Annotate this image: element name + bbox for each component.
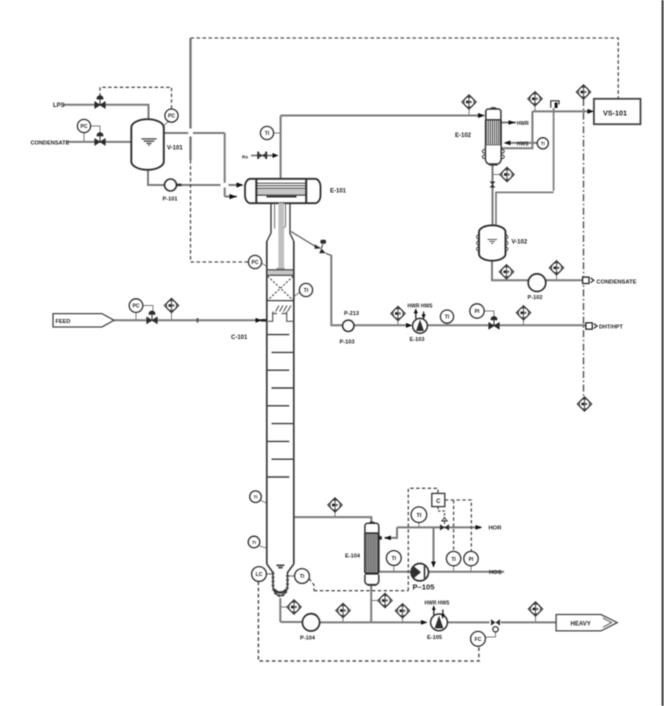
svg-text:E-103: E-103 bbox=[410, 337, 425, 343]
svg-text:Ro: Ro bbox=[242, 155, 248, 160]
svg-text:TI: TI bbox=[416, 513, 421, 519]
svg-text:E-102: E-102 bbox=[455, 133, 472, 139]
svg-text:P-102: P-102 bbox=[528, 295, 543, 301]
svg-text:V-101: V-101 bbox=[167, 146, 183, 152]
svg-text:LPS: LPS bbox=[53, 103, 65, 109]
svg-text:TI: TI bbox=[252, 540, 256, 545]
svg-text:PC: PC bbox=[252, 260, 259, 266]
svg-text:E-104: E-104 bbox=[345, 554, 361, 560]
svg-text:PC: PC bbox=[168, 114, 175, 120]
svg-text:PC: PC bbox=[81, 124, 88, 130]
svg-text:C: C bbox=[436, 499, 441, 505]
svg-text:TI: TI bbox=[265, 131, 270, 137]
svg-text:HOS: HOS bbox=[489, 570, 502, 576]
svg-text:HOR: HOR bbox=[489, 526, 503, 532]
svg-text:CONDENSATE: CONDENSATE bbox=[31, 140, 70, 146]
svg-text:P–105: P–105 bbox=[413, 583, 436, 592]
svg-text:P-101: P-101 bbox=[163, 197, 178, 203]
svg-text:E-105: E-105 bbox=[427, 635, 442, 641]
svg-text:HEAVY: HEAVY bbox=[571, 621, 591, 627]
svg-text:P-213: P-213 bbox=[344, 311, 359, 317]
svg-text:TI: TI bbox=[445, 315, 450, 321]
svg-text:TI: TI bbox=[541, 141, 545, 146]
svg-text:PI: PI bbox=[469, 557, 474, 563]
svg-text:HWR: HWR bbox=[517, 121, 529, 127]
svg-text:TI: TI bbox=[304, 288, 309, 294]
svg-text:PI: PI bbox=[475, 309, 480, 315]
svg-text:TI: TI bbox=[451, 557, 456, 563]
svg-text:FC: FC bbox=[475, 637, 482, 643]
svg-text:LC: LC bbox=[256, 572, 263, 578]
svg-text:HWR HWS: HWR HWS bbox=[408, 303, 434, 309]
svg-text:CONDENSATE: CONDENSATE bbox=[596, 280, 636, 286]
svg-text:HWS: HWS bbox=[517, 142, 529, 148]
svg-text:HWR HWS: HWR HWS bbox=[425, 601, 451, 607]
svg-text:E-101: E-101 bbox=[330, 189, 347, 195]
svg-text:FEED: FEED bbox=[56, 319, 71, 325]
svg-text:V-102: V-102 bbox=[512, 240, 528, 246]
svg-text:DHT/HPT: DHT/HPT bbox=[599, 324, 623, 330]
svg-text:TI: TI bbox=[254, 495, 258, 500]
svg-text:C-101: C-101 bbox=[231, 335, 248, 341]
svg-text:P-103: P-103 bbox=[340, 340, 355, 346]
svg-text:PC: PC bbox=[133, 304, 140, 310]
svg-text:TI: TI bbox=[392, 556, 397, 562]
svg-text:P-104: P-104 bbox=[300, 635, 316, 641]
svg-text:TI: TI bbox=[300, 574, 305, 580]
svg-text:VS-101: VS-101 bbox=[603, 109, 627, 118]
